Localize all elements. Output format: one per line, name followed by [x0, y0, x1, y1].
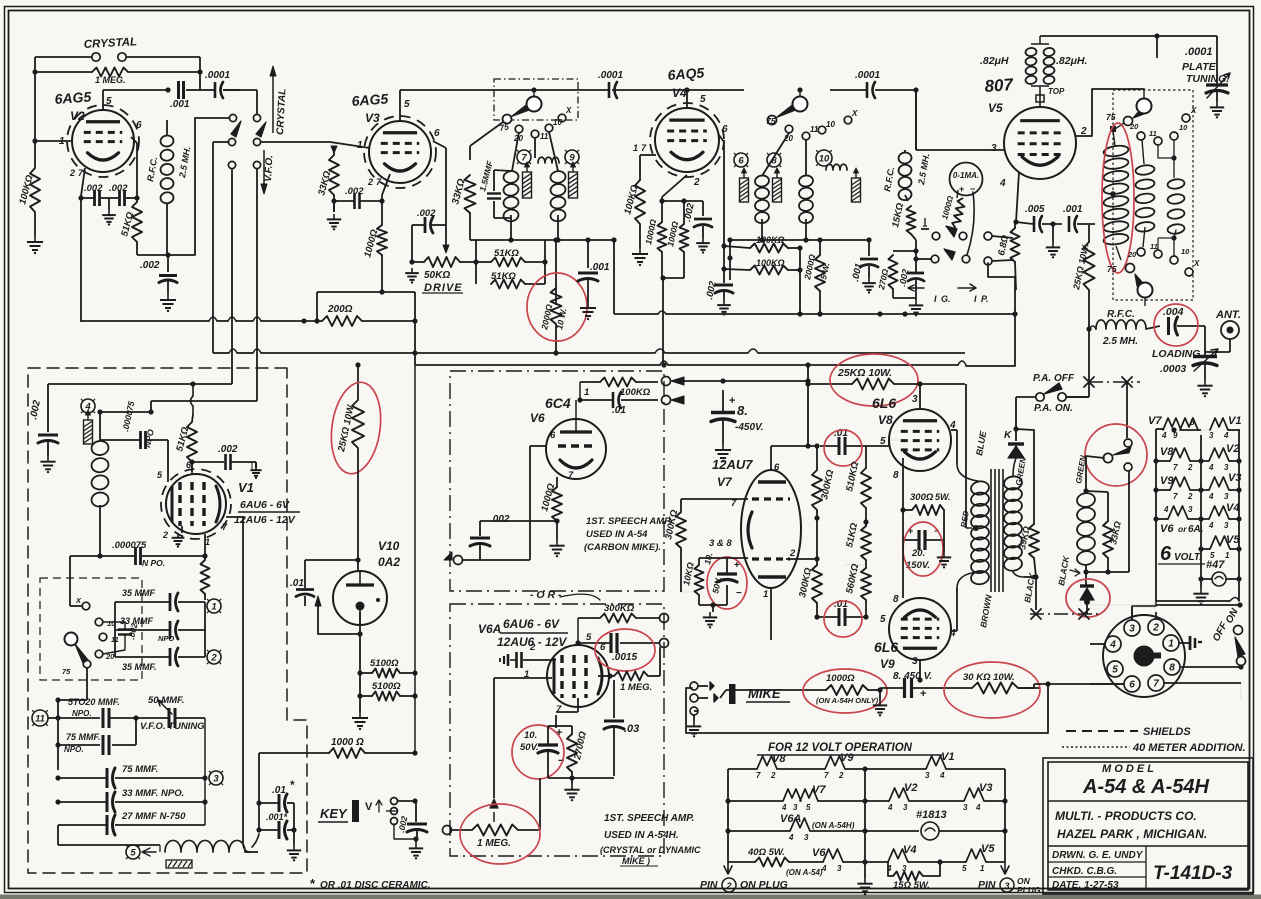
ground V1 cathode [181, 526, 183, 533]
wire socket top left [1090, 604, 1156, 606]
switch lower contacts [228, 161, 235, 168]
svg-text:.002: .002 [490, 514, 510, 525]
slug 4 [773, 178, 782, 202]
svg-text:7: 7 [824, 771, 829, 780]
svg-text:A-54 & A-54H: A-54 & A-54H [1082, 776, 1210, 798]
svg-text:I P.: I P. [974, 294, 988, 304]
svg-text:V.F.O.: V.F.O. [263, 155, 275, 182]
wire plate V2 [102, 90, 104, 110]
svg-text:V8: V8 [878, 413, 893, 427]
svg-text:3: 3 [1004, 881, 1009, 891]
svg-text:11: 11 [35, 714, 45, 725]
circled 2 [207, 650, 221, 664]
svg-text:8: 8 [1169, 663, 1175, 674]
rail1 y384 [48, 383, 232, 385]
svg-text:3: 3 [1224, 463, 1229, 472]
svg-text:40 METER ADDITION.: 40 METER ADDITION. [1132, 742, 1246, 754]
svg-text:4: 4 [886, 864, 892, 873]
svg-text:T-141D-3: T-141D-3 [1153, 863, 1233, 884]
svg-text:-450V.: -450V. [735, 422, 764, 433]
wire V9 pin4 [951, 630, 957, 632]
dash-dot box V6A [450, 604, 664, 856]
svg-text:+: + [729, 395, 735, 407]
wire x415 riser [414, 292, 416, 365]
svg-text:27 MMF N-750: 27 MMF N-750 [121, 811, 186, 822]
capacitor .001 [177, 81, 180, 99]
wire V6A bottom [548, 777, 614, 779]
svg-text:PIN: PIN [700, 879, 718, 891]
switch wiper right [256, 122, 266, 137]
wire socket top to switch [1156, 604, 1240, 606]
tank2 coil B [798, 175, 813, 188]
svg-text:8. 450 V.: 8. 450 V. [893, 671, 932, 682]
svg-text:75: 75 [766, 116, 776, 126]
capacitor .002 a [93, 190, 96, 206]
svg-text:3: 3 [1129, 624, 1135, 635]
svg-text:.002: .002 [109, 183, 128, 194]
relay bottom contact wire [1128, 471, 1130, 572]
tank2 coil A [754, 175, 769, 188]
svg-text:X: X [1193, 259, 1200, 268]
svg-text:35 MMF.: 35 MMF. [122, 662, 157, 672]
cap .002 switch [118, 628, 132, 630]
svg-text:3: 3 [963, 803, 968, 812]
tank1 terminals 20 11 10 [515, 125, 523, 133]
wire x415 mid [414, 365, 416, 753]
svg-text:5: 5 [1190, 418, 1195, 427]
svg-text:.82μH: .82μH [980, 55, 1009, 67]
svg-text:3: 3 [912, 394, 918, 405]
svg-text:X: X [851, 109, 858, 118]
dashed inner switch box [40, 578, 142, 680]
svg-text:1: 1 [211, 602, 216, 613]
svg-text:(ON A-54H): (ON A-54H) [812, 821, 855, 830]
svg-text:6C4: 6C4 [545, 395, 571, 411]
svg-text:.0001: .0001 [205, 70, 230, 81]
12v row3 [728, 830, 790, 832]
svg-text:2: 2 [529, 642, 536, 653]
capacitor .002 drive [424, 217, 427, 233]
socket cap pin1 [1179, 642, 1190, 644]
wire pivot down [212, 142, 214, 353]
slug 3 [740, 178, 749, 202]
svg-text:.002: .002 [84, 183, 103, 194]
svg-text:SHIELDS: SHIELDS [1143, 726, 1191, 738]
svg-text:8: 8 [893, 470, 899, 481]
legend 40 meter [1062, 746, 1130, 748]
capacitor .001 807 [1068, 216, 1071, 232]
svg-text:VOLT.: VOLT. [1174, 552, 1202, 563]
svg-text:6: 6 [434, 128, 440, 139]
wire 30K right [1018, 687, 1034, 689]
slug 1 [523, 172, 532, 198]
RFC 2.5MH ant [1096, 320, 1146, 329]
svg-text:K: K [1004, 430, 1012, 441]
svg-text:R.F.C.: R.F.C. [1107, 309, 1135, 320]
svg-text:V4: V4 [1226, 502, 1239, 514]
svg-text:.001: .001 [590, 262, 610, 273]
circled 9 [565, 150, 579, 164]
resistor 510K [861, 468, 871, 508]
capacitor .004 red [1167, 317, 1170, 335]
resistor 10K [695, 565, 704, 595]
svg-text:3 & 8: 3 & 8 [709, 538, 732, 549]
svg-text:300KΩ: 300KΩ [604, 603, 635, 614]
mike return bus [686, 684, 1048, 733]
svg-text:4: 4 [939, 771, 945, 780]
capacitor .002 meter [908, 272, 924, 275]
svg-text:4: 4 [975, 803, 981, 812]
svg-text:V6: V6 [1160, 523, 1174, 535]
tube V2 6AG5 [72, 110, 134, 172]
svg-text:6AG5: 6AG5 [54, 88, 92, 107]
input terminals V7 [662, 377, 671, 386]
svg-text:V7: V7 [717, 475, 733, 489]
wire pa switch [1016, 396, 1036, 398]
svg-text:7: 7 [756, 771, 761, 780]
switch wiper left [231, 121, 241, 137]
12v left bus [727, 769, 729, 862]
capacitor 50MMF vfo tuning [168, 708, 171, 728]
circled 1 [207, 599, 221, 613]
svg-text:20: 20 [1127, 250, 1137, 259]
transformer red riser [965, 384, 967, 528]
svg-text:10: 10 [1181, 247, 1190, 256]
svg-text:PIN: PIN [978, 879, 996, 891]
resistor 6.8 [1011, 228, 1020, 262]
tube V9 6L6 [889, 598, 951, 660]
switch arm tank1 [511, 105, 529, 117]
wire V8 V9 cathode bus [902, 508, 904, 598]
ground between [1052, 224, 1054, 242]
filament bus left [1155, 429, 1157, 601]
tube V5 807 [1004, 107, 1076, 179]
wire lower contact wires [231, 169, 233, 384]
svg-text:0-1MA.: 0-1MA. [953, 171, 979, 180]
svg-text:V8: V8 [772, 753, 786, 765]
keying terminals [984, 232, 992, 240]
resistor 1000ohm V3 [377, 225, 387, 255]
svg-text:11: 11 [1150, 242, 1158, 251]
small coil tank2 [826, 164, 847, 170]
svg-text:5: 5 [1112, 665, 1118, 676]
svg-text:4: 4 [788, 833, 794, 842]
svg-text:−: − [736, 588, 742, 599]
wire cathode V6 [530, 520, 557, 522]
svg-text:2: 2 [838, 771, 844, 780]
bus B+ y321 [80, 320, 209, 322]
pin2 plug [724, 862, 732, 874]
svg-text:4: 4 [1208, 492, 1214, 501]
svg-text:10: 10 [819, 154, 830, 165]
key caps left riser [258, 753, 260, 830]
meter 0-1MA [950, 163, 983, 196]
wire pin7 right [1164, 682, 1241, 684]
tube V3 6AG5 [369, 121, 431, 183]
V6 plate wire [579, 382, 581, 400]
wire V6 grid [530, 445, 546, 447]
wire V7 pin1 [770, 588, 772, 617]
resistor 30K 10W red [972, 683, 1018, 694]
wire plate V3 up [399, 90, 401, 121]
resistor 1000 V6 [552, 487, 562, 521]
ground 20 [943, 510, 945, 540]
capacitor grid2 V6A [515, 652, 518, 668]
svg-text:V1: V1 [238, 480, 254, 495]
svg-text:1: 1 [633, 143, 638, 153]
wire grid V1 [191, 462, 193, 474]
svg-text:- O R -: - O R - [530, 589, 562, 601]
svg-text:KEY: KEY [320, 806, 348, 821]
dashed box VFO [28, 368, 307, 873]
wire 100K right riser [799, 248, 801, 270]
circled 11 [32, 710, 48, 726]
svg-text:+: + [959, 184, 964, 194]
wire V7 cathode bottom [699, 604, 727, 606]
top cap 807 [1039, 92, 1041, 107]
legend shields [1066, 730, 1138, 732]
svg-text:#1813: #1813 [916, 809, 947, 821]
mike jack [690, 682, 698, 690]
wire pivot to coil [1086, 456, 1104, 487]
svg-text:.004: .004 [1163, 306, 1184, 318]
ground V2 grid [34, 236, 36, 242]
V10 small dot [376, 598, 380, 602]
svg-text:0A2: 0A2 [378, 555, 400, 569]
svg-text:5100Ω: 5100Ω [372, 681, 401, 692]
svg-text:7: 7 [521, 153, 527, 164]
svg-text:DRIVE: DRIVE [424, 282, 463, 294]
tank2 terminals [785, 125, 793, 133]
filament row wires [1156, 428, 1163, 430]
wire pin6 left [1090, 683, 1124, 685]
resistor 300K V6A [600, 614, 636, 623]
svg-text:5: 5 [880, 614, 886, 625]
svg-text:50 MMF.: 50 MMF. [148, 695, 184, 706]
ground meter small [921, 228, 929, 230]
tank1 bottom bus [494, 217, 511, 219]
svg-text:1ST. SPEECH AMP.: 1ST. SPEECH AMP. [604, 813, 694, 824]
svg-text:V6: V6 [530, 411, 545, 425]
12v row1 [728, 768, 757, 770]
wire V7 grid [681, 498, 748, 500]
capacitor .001 tank1 [587, 240, 589, 268]
svg-text:NPO: NPO [158, 634, 174, 643]
circled 3 [209, 771, 223, 785]
pot 1MEG V6A [472, 825, 518, 836]
svg-text:.001: .001 [170, 99, 190, 110]
wire V9 plate [919, 660, 921, 680]
svg-text:5: 5 [962, 864, 967, 873]
octal socket circle [1103, 615, 1185, 697]
svg-text:6AU6 - 6V: 6AU6 - 6V [503, 617, 560, 631]
wire pin6 V2 [131, 137, 137, 143]
resistor 1000 a V4 [658, 222, 667, 252]
svg-text:6: 6 [1129, 680, 1135, 691]
resistor 300K V7 right [812, 470, 822, 510]
resistor 560K [861, 568, 871, 600]
vfo bottom coil [165, 840, 245, 852]
tube V8 6L6 [889, 409, 951, 471]
resistor 300K V7 pin1 [812, 565, 822, 603]
capacitor .03 [613, 680, 615, 718]
capacitor .002 vfo [47, 384, 49, 432]
ground .002 vfo b [255, 462, 257, 468]
resistor 33K V3 [329, 155, 339, 195]
RFC 2.5MH coil [160, 135, 174, 148]
capacitor .0015 red [609, 633, 612, 653]
svg-text:.82μH.: .82μH. [1056, 55, 1088, 67]
39K resistor [1029, 524, 1039, 558]
ground .002 [108, 198, 110, 210]
vfo coil [91, 440, 110, 456]
red cap 20 150V [917, 530, 920, 550]
svg-text:1: 1 [763, 589, 768, 600]
svg-text:.01: .01 [290, 578, 304, 589]
capacitor .002 V4 left [702, 201, 704, 216]
12v row2 [728, 800, 783, 802]
svg-text:807: 807 [984, 75, 1015, 96]
red cap 10 50V V6A [538, 743, 558, 746]
svg-text:V1: V1 [1228, 415, 1241, 427]
svg-text:2: 2 [162, 530, 168, 540]
slug 5 [852, 178, 861, 202]
arrow branch v10 [318, 600, 360, 634]
svg-text:50KΩ: 50KΩ [424, 270, 450, 281]
wire grid V2 left [34, 72, 36, 141]
svg-text:ANT.: ANT. [1215, 309, 1241, 321]
svg-text:6AQ5: 6AQ5 [667, 64, 705, 83]
svg-text:3: 3 [213, 774, 219, 785]
svg-text:35 MMF: 35 MMF [122, 588, 156, 598]
branch x193 to 51K [191, 384, 194, 414]
small coupling coil [538, 157, 559, 163]
svg-text:2: 2 [789, 548, 796, 559]
svg-text:PLUG: PLUG [1017, 885, 1041, 895]
svg-text:2: 2 [210, 653, 217, 664]
parasitic chokes .82uH [1025, 47, 1037, 56]
wire 25K down to V10 [357, 470, 359, 570]
svg-text:11: 11 [540, 132, 549, 141]
12v right bus [1004, 769, 1006, 862]
wire left contact to V2 tank [195, 117, 229, 119]
capacitor .01 red V9 [838, 608, 841, 626]
svg-text:.002: .002 [218, 444, 238, 455]
wire pin8 right [1180, 666, 1241, 668]
filament ground [1200, 580, 1202, 588]
wire 75 to 33K [470, 122, 503, 146]
svg-text:V2: V2 [70, 109, 85, 123]
svg-text:V10: V10 [378, 539, 400, 553]
svg-text:3: 3 [912, 656, 918, 667]
svg-text:5: 5 [806, 803, 811, 812]
svg-text:V2: V2 [904, 782, 917, 794]
wire bottom V2 [137, 254, 168, 256]
red cap 10 50V V7 [717, 572, 737, 575]
wire V7 pin2 [786, 558, 817, 560]
main bus 1 [213, 352, 229, 354]
svg-text:4: 4 [1208, 521, 1214, 530]
svg-text:1: 1 [980, 864, 985, 873]
svg-text:.0001: .0001 [855, 70, 880, 81]
capacitor .000075 NPO b [204, 534, 206, 556]
ground meter bus [915, 298, 917, 300]
807 cathode wire [1016, 172, 1019, 222]
wire 807 plate side [1076, 89, 1144, 136]
svg-text:N PO.: N PO. [142, 558, 165, 568]
circled 8 [767, 153, 781, 167]
resistor 100K c [750, 244, 788, 253]
12v mid bus [864, 769, 866, 878]
svg-text:6: 6 [722, 124, 728, 135]
svg-text:4: 4 [887, 803, 893, 812]
svg-text:4: 4 [999, 178, 1006, 189]
capacitor 35MMF [169, 593, 172, 611]
svg-text:.0001: .0001 [1185, 46, 1213, 58]
svg-text:CHKD. C.B.G.: CHKD. C.B.G. [1052, 866, 1117, 877]
mike ground [693, 715, 695, 721]
transformer primary [957, 464, 978, 481]
capacitor .001 tank2 [868, 240, 870, 256]
ground bus y314 [613, 240, 615, 314]
svg-text:100KΩ: 100KΩ [620, 387, 651, 398]
wire 807 grid [916, 149, 1004, 151]
svg-text:P.A. ON.: P.A. ON. [1034, 403, 1073, 414]
svg-text:3: 3 [991, 143, 997, 154]
circled 4 vfo [81, 399, 95, 413]
wire PA switch right [1066, 396, 1089, 398]
wire V1 pin7 to coil [226, 516, 243, 518]
svg-text:100KΩ: 100KΩ [756, 258, 785, 268]
svg-text:USED IN A-54: USED IN A-54 [586, 529, 648, 540]
svg-text:10: 10 [553, 118, 562, 127]
svg-text:75 MMF.: 75 MMF. [66, 732, 101, 742]
wire relay down [1126, 382, 1128, 438]
wire pin6 V3 screen [433, 141, 446, 148]
capacitor 33MMF NPO c [106, 792, 109, 812]
svg-text:DATE. 1-27-53: DATE. 1-27-53 [1052, 880, 1119, 891]
svg-text:7: 7 [556, 704, 562, 715]
svg-text:X: X [75, 596, 82, 605]
wire v10 down [359, 612, 361, 712]
wire 75mmf [135, 718, 137, 745]
svg-text:6: 6 [1160, 543, 1172, 565]
wire V4 screen chain [719, 135, 724, 142]
capacitor .002 vfo b [224, 454, 227, 470]
main bus 2 [415, 364, 660, 366]
wire top B+ [1040, 35, 1217, 37]
svg-text:3: 3 [793, 803, 798, 812]
wire mid tank [544, 240, 546, 284]
svg-text:OR .01 DISC CERAMIC.: OR .01 DISC CERAMIC. [320, 880, 431, 891]
svg-text:V.F.O. TUNING: V.F.O. TUNING [140, 721, 205, 732]
relay coil [1076, 492, 1096, 508]
svg-text:I G.: I G. [934, 294, 951, 304]
resistor 51K [132, 202, 142, 242]
final coil 1 [1103, 144, 1129, 157]
final coil 2 [1135, 164, 1155, 176]
heater V6-6A [1168, 506, 1188, 519]
svg-text:V6A: V6A [780, 813, 801, 825]
capacitor .01 V10 [304, 580, 306, 588]
svg-text:2: 2 [693, 177, 700, 188]
svg-text:.0015: .0015 [612, 652, 637, 663]
transformer secondary [1013, 458, 1016, 476]
svg-text:51KΩ: 51KΩ [494, 248, 519, 259]
svg-text:4: 4 [1161, 431, 1167, 440]
svg-text:1 MEG.: 1 MEG. [477, 838, 511, 849]
svg-text:2: 2 [69, 168, 75, 178]
